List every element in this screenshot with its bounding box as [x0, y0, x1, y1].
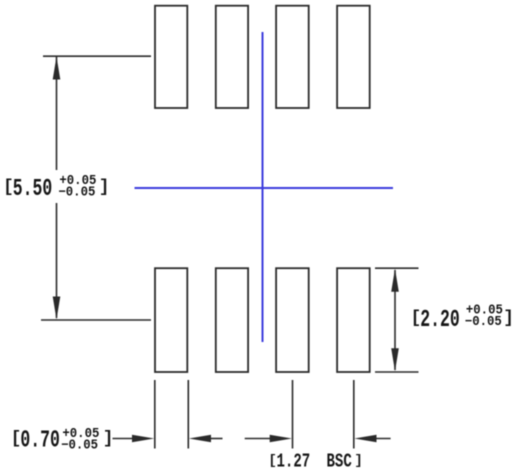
svg-text:2.20: 2.20	[420, 307, 459, 334]
svg-text:[: [	[3, 178, 14, 198]
svg-text:[: [	[411, 309, 422, 329]
svg-text:]: ]	[354, 453, 362, 469]
svg-text:−0.05: −0.05	[465, 313, 502, 329]
svg-text:[: [	[11, 429, 22, 449]
svg-text:−0.05: −0.05	[61, 437, 98, 453]
svg-text:]: ]	[103, 429, 114, 449]
svg-text:]: ]	[503, 309, 514, 329]
svg-text:−0.05: −0.05	[58, 184, 95, 200]
svg-text:]: ]	[99, 178, 110, 198]
svg-text:0.70: 0.70	[20, 428, 59, 455]
svg-text:BSC: BSC	[327, 452, 352, 474]
svg-text:1.27: 1.27	[277, 452, 311, 474]
svg-text:[: [	[268, 453, 276, 469]
svg-text:5.50: 5.50	[13, 176, 52, 203]
